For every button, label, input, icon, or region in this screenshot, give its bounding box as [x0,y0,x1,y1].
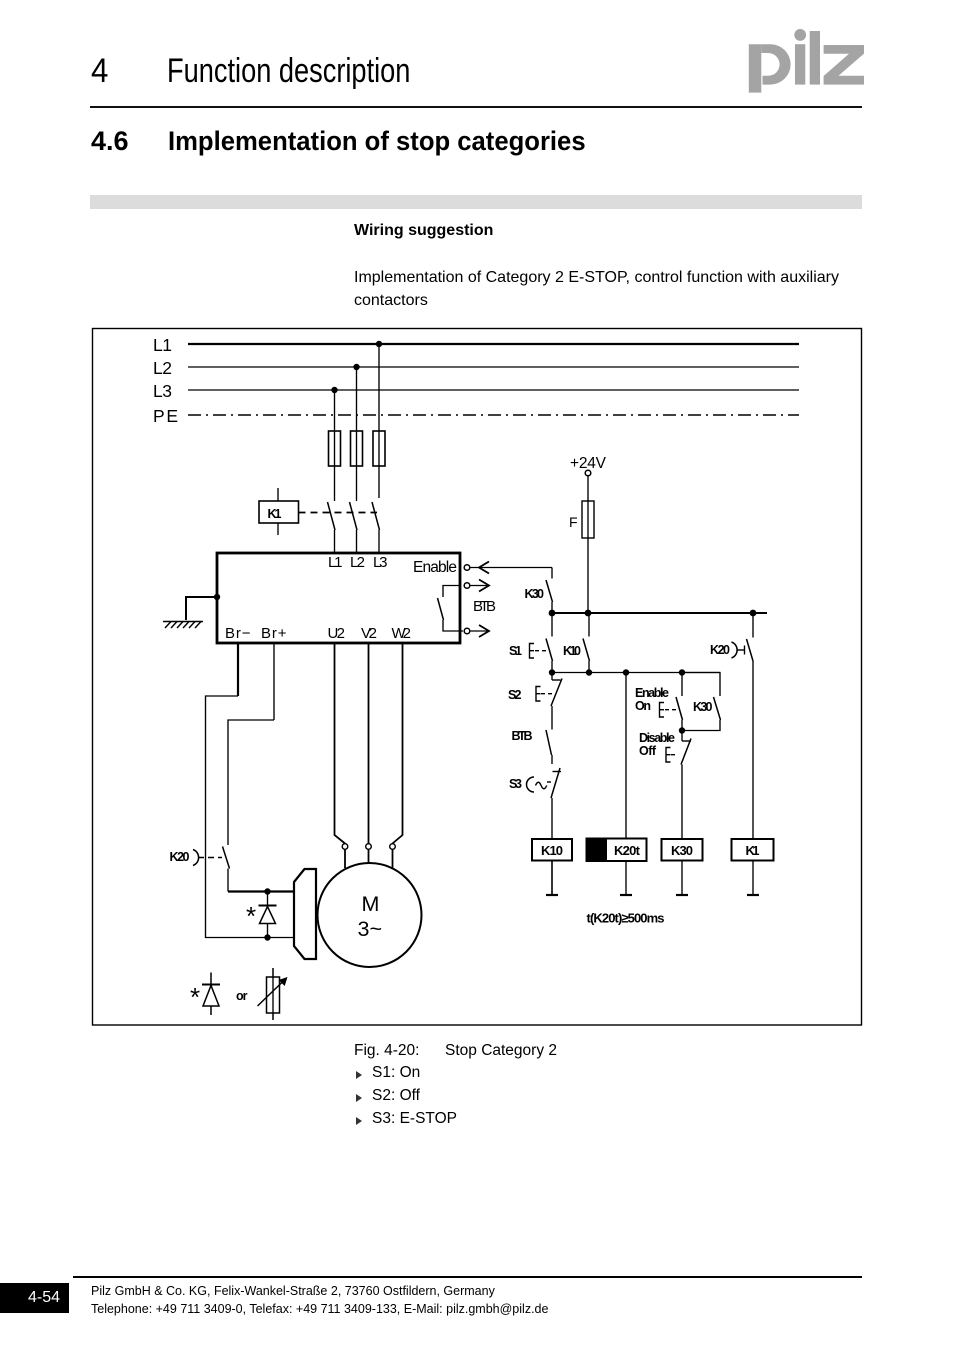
coil K1 ground stub [747,861,759,896]
wire phase drop 3 [378,344,380,498]
motor terminal V [366,844,372,864]
pin label U2 [328,625,346,642]
switch S2 NC [508,673,562,730]
svg-text:K10: K10 [563,644,581,658]
svg-text:PE: PE [153,406,178,426]
svg-text:L1: L1 [328,554,343,571]
drive unit box U1 [217,553,460,643]
pin label L2 [350,554,365,571]
coil K10 ground stub [546,861,558,896]
pin label L1 [328,554,343,571]
coil K1 [732,839,774,861]
svg-text:On: On [635,699,651,713]
svg-text:K20t: K20t [614,843,641,858]
subhead [354,222,493,240]
bullet S3 [356,1117,362,1125]
motor terminal U [342,844,348,868]
figure caption [354,1042,419,1060]
pin label L3 [373,554,388,571]
diode V1 suppressor [246,892,277,938]
pin label Br- [225,625,251,642]
switch Disable-Off NC [639,731,691,840]
wire enable input with arrow [471,562,553,574]
contactor K1 main contact 2 [350,502,358,552]
svg-text:U2: U2 [328,625,346,642]
wire row A [552,672,720,674]
wire L1 rail [188,343,799,345]
value label t(K20t)>=500ms [587,911,665,926]
svg-text:*: * [190,982,200,1012]
junction diode top [264,888,270,894]
svg-text:Off: Off [639,744,657,758]
svg-text:S2: S2 [508,688,522,702]
terminal BTB1 [464,583,470,589]
svg-text:or: or [236,989,248,1003]
junction bus-24V [585,610,592,617]
terminal BTB2 [464,628,470,634]
pin label V2 [361,625,377,642]
coil K20t with off-delay block [587,839,647,862]
junction rowA-enable-branch [679,669,685,675]
junction rowA-K20t [623,669,629,675]
wire U2 [335,643,346,844]
pin label Enable [413,559,457,576]
svg-text:V2: V2 [361,625,377,642]
page number block [0,1283,69,1313]
legend varistor [258,968,288,1020]
section number [91,126,129,157]
svg-text:K20: K20 [170,850,190,864]
junction bus-K20 [750,610,757,617]
svg-text:L2: L2 [153,358,172,378]
svg-text:Br+: Br+ [261,625,287,642]
wire to ground [186,597,217,620]
coil K1 box [259,488,299,535]
svg-text:K1: K1 [746,843,760,858]
ground node junction [214,594,220,600]
chapter title [167,52,410,91]
coil K30 ground stub [676,861,688,896]
section title [168,126,586,157]
svg-text:M: M [362,892,380,916]
switch Enable-On [635,673,683,731]
fuse F [569,501,594,538]
contact K20 cam [710,613,753,839]
wire L3 rail [188,389,799,391]
pin label Br+ [261,625,287,642]
svg-text:F: F [569,514,578,530]
svg-text:+24V: +24V [570,455,607,472]
wire 24V feed [587,476,589,613]
junction on L1 [376,341,382,347]
wire PE rail [188,414,799,416]
wire phase drop 2 [356,367,358,501]
wire Br- [206,643,295,938]
svg-text:S3: S3 [509,777,522,791]
svg-text:K30: K30 [693,700,713,714]
bullet S1 [356,1071,362,1079]
svg-text:K30: K30 [671,843,693,858]
fuse F1 [329,431,341,466]
footer rule [73,1276,862,1278]
junction on L2 [353,364,359,370]
svg-text:L3: L3 [373,554,388,571]
svg-text:L1: L1 [153,335,172,355]
contact K30 latch [682,673,721,731]
node L3 rail label [153,381,172,401]
coil K30 [662,839,703,861]
intro paragraph [354,266,858,312]
fuse F3 [373,431,385,466]
footer address [91,1282,548,1318]
svg-text:K30: K30 [525,587,545,601]
junction rowA-K10 [586,669,592,675]
junction bus-S1 [549,610,556,617]
legend diode [190,973,220,1016]
svg-text:BTB: BTB [473,598,496,615]
svg-text:L2: L2 [350,554,365,571]
svg-text:Disable: Disable [639,731,675,745]
contact BTB feedback [512,729,553,764]
node L1 rail label [153,335,172,355]
bullet S2 [356,1094,362,1102]
terminal enable [464,565,470,571]
wire V2 [368,643,370,844]
terminal +24V [585,470,591,476]
motor M 3-phase [318,863,422,967]
wire K20t branch [625,673,627,839]
wire control bus [552,612,767,614]
fuse F2 [351,431,363,466]
svg-text:3~: 3~ [358,917,383,941]
svg-text:K1: K1 [268,507,282,521]
svg-text:Enable: Enable [635,686,669,700]
coil K20t ground stub [620,861,632,895]
wire phase drop 1 [334,390,336,501]
contactor K1 main contact 3 [372,502,380,552]
coil K10 [532,839,572,861]
motor terminal W [390,844,396,868]
junction on L3 [331,387,337,393]
svg-text:K20: K20 [710,643,730,657]
switch S1 [509,613,553,673]
contactor K1 main contact 1 [328,502,336,552]
svg-text:K10: K10 [541,843,563,858]
junction rowA-S2 [549,669,555,675]
wire W2 [393,643,403,844]
svg-text:Enable: Enable [413,559,457,576]
legend or [236,989,248,1003]
svg-text:W2: W2 [392,625,412,642]
pilz logo [749,29,864,93]
node PE rail label [153,406,178,426]
ground symbol [163,622,203,629]
wire BTB1 output arrow [471,580,490,592]
pin label BTB [473,598,496,615]
wire Br+ [228,643,274,845]
brake Y1 [294,869,316,959]
chapter number [91,52,108,91]
wire L2 rail [188,366,799,368]
svg-text:L3: L3 [153,381,172,401]
svg-text:BTB: BTB [512,729,533,743]
wire BTB2 output arrow [471,625,490,637]
wire brake supply top [228,890,294,892]
junction below Enable-On [679,727,685,733]
junction diode bottom [264,934,270,940]
svg-text:S1: S1 [509,644,522,658]
contact K10 [563,613,590,673]
svg-text:*: * [246,901,256,931]
switch S3 E-STOP [509,768,561,839]
header rule [90,106,862,108]
contact K30 on enable line [525,568,553,614]
K1 coil linkage dashed [299,512,378,514]
grey divider bar [90,195,862,209]
pin label W2 [392,625,412,642]
schematic frame [93,329,862,1026]
contact K20 brake [170,847,230,892]
svg-text:Br−: Br− [225,625,251,642]
node L2 rail label [153,358,172,378]
svg-text:t(K20t)≥500ms: t(K20t)≥500ms [587,911,665,926]
internal BTB relay contact [438,586,464,632]
node +24V label [570,455,607,472]
